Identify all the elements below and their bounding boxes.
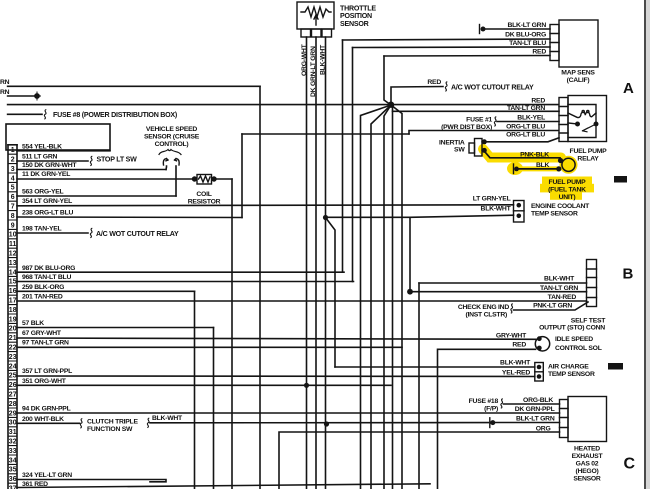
relay BLK-YEL stub to contact — [568, 123, 578, 124]
svg-text:5: 5 — [11, 185, 15, 192]
idle sol pin dot upper — [537, 336, 542, 341]
svg-text:6: 6 — [11, 194, 15, 201]
junction dot clutch BLK-WHT — [324, 421, 329, 426]
relay coil — [568, 112, 596, 117]
svg-text:25: 25 — [9, 373, 17, 380]
fuel pump relay box — [568, 96, 607, 142]
svg-text:TAN-LT GRN: TAN-LT GRN — [540, 285, 578, 292]
inertia top pin lead — [482, 141, 484, 143]
svg-text:OUTPUT (STO) CONN: OUTPUT (STO) CONN — [539, 325, 605, 332]
air charge pin dot lower — [537, 374, 542, 379]
BLK wire connector bar — [513, 164, 515, 174]
connector squiggle fuse 18 — [501, 399, 503, 409]
wire relay BLK-YEL from fuse 1 — [497, 121, 559, 123]
relay contact dot right — [594, 122, 599, 127]
svg-text:259 BLK-ORG: 259 BLK-ORG — [22, 284, 64, 291]
svg-text:RELAY: RELAY — [577, 155, 599, 162]
svg-text:10: 10 — [9, 232, 17, 239]
svg-text:ORG-LT BLU: ORG-LT BLU — [506, 124, 545, 131]
svg-text:(CALIF): (CALIF) — [567, 77, 590, 84]
relay contact dot left — [575, 122, 580, 127]
junction dot BLK-WHT ECT — [323, 215, 328, 220]
svg-text:31: 31 — [9, 429, 17, 436]
svg-text:ORG: ORG — [536, 426, 551, 433]
svg-text:17: 17 — [9, 298, 17, 305]
BLK-LT GRN inline connector bar — [489, 418, 491, 428]
svg-text:FUEL PUMP: FUEL PUMP — [570, 148, 608, 155]
svg-text:CHECK ENG IND: CHECK ENG IND — [458, 304, 509, 311]
wire FUSE #8 stub — [8, 113, 42, 115]
MAP sensor box — [559, 20, 598, 67]
svg-text:B: B — [623, 266, 634, 283]
wire 97 TAN-LT GRN — [17, 346, 402, 348]
TPS potentiometer zigzag — [301, 7, 331, 17]
svg-text:19: 19 — [9, 316, 17, 323]
wire node vertical straight down — [392, 105, 394, 489]
svg-text:CLUTCH TRIPLE: CLUTCH TRIPLE — [87, 419, 138, 426]
wire TAN-LT GRN B horizontal — [410, 291, 587, 293]
wire 198 TAN-YEL stub — [17, 232, 88, 234]
svg-text:563 ORG-YEL: 563 ORG-YEL — [22, 189, 64, 196]
svg-text:AIR CHARGE: AIR CHARGE — [548, 364, 589, 371]
BLK-LT GRN inline connector dot — [490, 420, 495, 425]
wire 238 ORG-LT BLU upper run — [242, 133, 409, 135]
HEGO pin column — [560, 400, 569, 438]
svg-text:150 DK GRN-WHT: 150 DK GRN-WHT — [22, 162, 77, 169]
wire MAP DK BLU-ORG vertical — [342, 40, 344, 272]
highlight BLK wire (yellow) — [515, 166, 558, 171]
junction dot 351 ORG-WHT — [304, 383, 309, 388]
wire diagonal from BLK-WHT junction to bus — [326, 218, 336, 368]
svg-text:28: 28 — [9, 401, 17, 408]
inertia switch body — [475, 139, 483, 157]
svg-text:A: A — [623, 80, 634, 97]
svg-text:BLK-YEL: BLK-YEL — [517, 115, 545, 122]
connector squiggle clutch right — [147, 418, 149, 428]
TPS pin box 1 — [301, 29, 311, 37]
svg-text:SELF TEST: SELF TEST — [571, 317, 606, 324]
marker bar B-section — [608, 363, 623, 370]
svg-text:C: C — [624, 456, 636, 473]
power distribution box outline — [6, 124, 110, 150]
svg-text:29: 29 — [9, 410, 17, 417]
svg-text:201 TAN-RED: 201 TAN-RED — [22, 294, 63, 301]
wire node ray to bus at 384 — [384, 105, 391, 489]
svg-text:32: 32 — [9, 439, 17, 446]
TPS pin box 3 — [322, 29, 332, 37]
ECT pin dot lower — [517, 214, 522, 219]
svg-text:DK BLU-ORG: DK BLU-ORG — [505, 31, 546, 38]
svg-text:TAN-LT GRN: TAN-LT GRN — [507, 105, 545, 112]
svg-text:RN: RN — [0, 79, 10, 86]
left connector strip right rail — [16, 145, 18, 489]
wire BLK-WHT B vertical drop — [418, 283, 420, 489]
wire 200 WHT-BLK stub — [17, 422, 80, 424]
vss coil symbol left — [163, 159, 168, 166]
svg-text:BLK-WHT: BLK-WHT — [544, 276, 575, 283]
svg-text:(INST CLSTR): (INST CLSTR) — [465, 312, 507, 319]
wire node ray to bus at 373.5 — [371, 105, 391, 489]
connector squiggle a/c wot top — [445, 82, 447, 92]
terminal dot GRN stub B — [34, 93, 40, 99]
svg-text:97 TAN-LT GRN: 97 TAN-LT GRN — [22, 340, 69, 347]
wire vss left pin drop — [165, 166, 168, 170]
svg-text:CONTROL): CONTROL) — [155, 141, 189, 148]
svg-text:ORG-LT BLU: ORG-LT BLU — [506, 132, 545, 139]
strip cell dividers — [8, 145, 17, 483]
wire MAP BLK-LT GRN stub — [484, 28, 550, 30]
highlight UNIT label line 3 — [550, 191, 582, 200]
svg-text:RN: RN — [0, 89, 10, 96]
relay coil loops — [582, 110, 584, 112]
coil resistor zigzag — [199, 176, 211, 182]
wire 94 DK GRN-PPL to HEGO — [17, 412, 560, 414]
wire 238 ORG-LT BLU lower run — [17, 216, 242, 219]
marker bar A-section — [614, 176, 627, 183]
svg-text:354 LT GRN-YEL: 354 LT GRN-YEL — [22, 198, 72, 205]
air charge temp sensor connector — [535, 363, 544, 382]
svg-text:57 BLK: 57 BLK — [22, 320, 44, 327]
svg-text:SENSOR: SENSOR — [573, 476, 601, 483]
svg-text:BLK-WHT: BLK-WHT — [481, 205, 512, 212]
connector squiggle check eng ind — [511, 304, 513, 314]
svg-text:198 TAN-YEL: 198 TAN-YEL — [22, 226, 62, 233]
svg-text:26: 26 — [9, 382, 17, 389]
B connector column — [587, 260, 597, 307]
svg-text:DK GRN-PPL: DK GRN-PPL — [515, 406, 555, 413]
svg-text:2: 2 — [11, 157, 15, 164]
inertia top pin dot — [482, 139, 487, 144]
svg-text:ORG-WHT: ORG-WHT — [301, 43, 308, 76]
svg-text:FUEL PUMP: FUEL PUMP — [549, 179, 587, 186]
wire 324 YEL-LT GRN with step — [17, 480, 166, 482]
svg-text:TEMP SENSOR: TEMP SENSOR — [531, 211, 578, 218]
svg-text:ENGINE COOLANT: ENGINE COOLANT — [531, 203, 590, 210]
wire MAP TAN-LT BLU vertical — [352, 48, 354, 282]
svg-text:16: 16 — [9, 288, 17, 295]
TPS pin box 2 — [312, 29, 322, 37]
svg-text:BLK-WHT: BLK-WHT — [320, 44, 327, 75]
svg-text:24: 24 — [9, 363, 17, 370]
svg-text:20: 20 — [9, 326, 17, 333]
svg-text:CONTROL SOL: CONTROL SOL — [555, 345, 602, 352]
wire BLK-LT GRN to HEGO — [494, 422, 560, 424]
connector squiggle fuse 1 — [494, 117, 496, 127]
wire GRN stub B with terminal — [8, 95, 37, 97]
fuel pump bottom pin dot — [556, 166, 561, 171]
svg-text:FUSE #1: FUSE #1 — [466, 116, 492, 123]
MAP BLK-LT GRN connector symbol — [479, 25, 481, 34]
svg-text:238 ORG-LT BLU: 238 ORG-LT BLU — [22, 210, 73, 217]
highlight BLK wire left connector blob (yellow) — [507, 162, 523, 175]
wire MAP RED horizontal — [384, 55, 550, 58]
wire MAP DK BLU-ORG horizontal — [343, 39, 551, 40]
svg-text:8: 8 — [11, 213, 15, 220]
svg-text:21: 21 — [9, 335, 17, 342]
wire node ray to bus at 402 down to 97 TAN-LT GRN junction and bottom — [391, 105, 402, 489]
svg-text:94 DK GRN-PPL: 94 DK GRN-PPL — [22, 406, 71, 413]
svg-text:357 LT GRN-PPL: 357 LT GRN-PPL — [22, 368, 72, 375]
svg-text:BLK-LT GRN: BLK-LT GRN — [507, 22, 546, 29]
vss brace — [159, 150, 181, 155]
wire 354 LT GRN-YEL to engine coolant temp sensor — [17, 205, 514, 206]
MAP pin dividers — [550, 34, 559, 52]
svg-text:A/C WOT CUTOUT RELAY: A/C WOT CUTOUT RELAY — [96, 230, 179, 238]
svg-text:4: 4 — [11, 175, 15, 182]
connector squiggle clutch left — [80, 419, 82, 429]
svg-text:361 RED: 361 RED — [22, 481, 48, 488]
wire MAP RED vertical joining node — [384, 56, 391, 105]
svg-text:BLK-WHT: BLK-WHT — [152, 415, 183, 422]
svg-text:COIL: COIL — [196, 191, 211, 198]
svg-text:200 WHT-BLK: 200 WHT-BLK — [22, 416, 64, 423]
svg-text:IDLE SPEED: IDLE SPEED — [555, 336, 593, 343]
svg-text:30: 30 — [9, 420, 17, 427]
wire RED main horizontal to fuel pump relay — [8, 104, 559, 106]
wire vertical from GRN A bend — [259, 86, 261, 489]
connector squiggle a/c wot cutout relay — [90, 228, 92, 238]
highlight PNK-BLK wire (yellow) — [483, 149, 561, 158]
MAP BLK-LT GRN connector dot — [481, 27, 486, 32]
wire ORG-LT BLU jog to relay — [409, 131, 559, 135]
svg-text:SW: SW — [454, 146, 465, 153]
svg-text:37: 37 — [9, 486, 17, 489]
wire TPS DK GRN-LT GRN vertical bus — [315, 37, 317, 489]
wire GRN stub A (top left) — [8, 85, 260, 87]
wire 511 LT GRN to stop lt sw — [17, 160, 88, 162]
svg-text:YEL-RED: YEL-RED — [502, 370, 530, 377]
svg-text:PNK-LT GRN: PNK-LT GRN — [533, 303, 572, 310]
engine coolant temp sensor connector — [514, 201, 525, 223]
idle sol pin dot lower — [537, 346, 542, 351]
relay pin column — [559, 98, 568, 142]
svg-text:INERTIA: INERTIA — [439, 139, 465, 146]
svg-text:36: 36 — [9, 476, 17, 483]
svg-text:TAN-LT BLU: TAN-LT BLU — [509, 40, 546, 47]
svg-text:(PWR DIST BOX): (PWR DIST BOX) — [441, 124, 492, 131]
wire vertical from 57 BLK bend — [213, 328, 215, 489]
svg-text:VEHICLE SPEED: VEHICLE SPEED — [146, 126, 197, 133]
highlight FUEL TANK label line 2 — [540, 184, 594, 193]
wire 259 BLK-ORG — [17, 290, 195, 292]
scan page right edge — [646, 0, 650, 489]
svg-text:PNK-BLK: PNK-BLK — [520, 151, 549, 158]
inertia bottom pin dot — [482, 148, 487, 153]
wire 987 DK BLU-ORG — [17, 271, 344, 273]
highlight fuel pump circle (yellow) — [560, 156, 578, 174]
svg-text:DK GRN-LT GRN: DK GRN-LT GRN — [310, 46, 317, 97]
left connector strip left rail — [7, 145, 9, 489]
svg-text:SENSOR: SENSOR — [340, 20, 369, 28]
coil resistor box — [197, 175, 212, 185]
ECT connector divider — [514, 210, 525, 212]
svg-text:23: 23 — [9, 354, 17, 361]
throttle position sensor box — [297, 2, 334, 29]
svg-text:LT GRN-YEL: LT GRN-YEL — [473, 196, 511, 203]
svg-text:987 DK BLU-ORG: 987 DK BLU-ORG — [22, 265, 75, 272]
wire idle speed RED with drop — [438, 349, 536, 489]
idle speed control sol circle — [535, 337, 549, 351]
wire vertical from coil resistor bend — [231, 179, 233, 489]
svg-text:GRY-WHT: GRY-WHT — [496, 332, 527, 339]
svg-text:18: 18 — [9, 307, 17, 314]
svg-text:BLK-WHT: BLK-WHT — [500, 360, 531, 367]
svg-text:(FUEL TANK: (FUEL TANK — [548, 186, 586, 193]
relay switch blade — [583, 124, 597, 132]
svg-text:UNIT): UNIT) — [559, 194, 576, 201]
svg-text:RED: RED — [532, 48, 546, 55]
wire 351 ORG-WHT — [17, 384, 391, 386]
svg-text:15: 15 — [9, 279, 17, 286]
wire vss right pin drop — [175, 166, 177, 196]
wire relay ORG-LT BLU 2 from inertia switch — [486, 138, 559, 142]
svg-text:35: 35 — [9, 467, 17, 474]
wire MAP TAN-LT BLU horizontal — [353, 46, 551, 49]
svg-text:511 LT GRN: 511 LT GRN — [22, 154, 57, 161]
wire PNK-BLK (on yellow) — [484, 151, 560, 158]
svg-text:RED: RED — [427, 79, 441, 86]
wire vertical from 259 bend — [194, 291, 196, 489]
relay pin dividers — [559, 107, 568, 134]
svg-text:3: 3 — [11, 166, 15, 173]
svg-text:BLK-LT GRN: BLK-LT GRN — [516, 416, 555, 423]
MAP pin column — [550, 25, 559, 61]
svg-text:67 GRY-WHT: 67 GRY-WHT — [22, 330, 62, 337]
svg-text:ORG-BLK: ORG-BLK — [523, 397, 553, 404]
svg-text:STOP LT SW: STOP LT SW — [97, 155, 138, 163]
svg-text:27: 27 — [9, 392, 17, 399]
svg-text:968 TAN-LT BLU: 968 TAN-LT BLU — [22, 274, 71, 281]
svg-text:MAP SENS: MAP SENS — [561, 70, 595, 77]
svg-text:EXHAUST: EXHAUST — [572, 453, 604, 460]
wire BLK-WHT B horizontal — [419, 282, 587, 284]
wire HEGO ORG-BLK from fuse 18 — [504, 403, 560, 405]
svg-text:RESISTOR: RESISTOR — [188, 198, 221, 205]
svg-text:A/C WOT CUTOUT RELAY: A/C WOT CUTOUT RELAY — [451, 84, 534, 92]
inertia switch tab — [469, 143, 475, 153]
svg-text:RED: RED — [512, 342, 526, 349]
wire 563 ORG-YEL to vss — [17, 195, 176, 197]
wire PNK-LT GRN with diagonal to pin — [514, 302, 589, 310]
air charge connector divider — [535, 371, 544, 373]
wire 968 TAN-LT BLU — [17, 281, 354, 283]
coil resistor left dot — [192, 176, 197, 181]
svg-text:33: 33 — [9, 448, 17, 455]
B connector dividers — [587, 269, 597, 298]
svg-text:GAS 02: GAS 02 — [576, 461, 599, 468]
svg-text:554 YEL-BLK: 554 YEL-BLK — [22, 143, 62, 150]
wire 201 TAN-RED to B connector — [17, 300, 587, 302]
svg-text:TEMP SENSOR: TEMP SENSOR — [548, 371, 595, 378]
ECT pin dot upper — [517, 203, 522, 208]
connector squiggle stop lt sw — [90, 156, 92, 166]
fuel pump top pin dot — [558, 158, 563, 163]
svg-text:(HEGO): (HEGO) — [575, 468, 598, 475]
fuel pump circle — [562, 158, 575, 171]
svg-text:RED: RED — [531, 97, 545, 104]
svg-text:13: 13 — [9, 260, 17, 267]
coil resistor right dot — [211, 176, 216, 181]
BLK wire connector dot — [514, 167, 519, 172]
svg-text:HEATED: HEATED — [574, 446, 600, 453]
svg-text:351 ORG-WHT: 351 ORG-WHT — [22, 378, 67, 385]
wire TPS ORG-WHT vertical bus — [306, 37, 308, 489]
wire node ray to bus at 363 — [361, 105, 392, 489]
svg-text:34: 34 — [9, 457, 17, 464]
wire clutch BLK-WHT run — [150, 422, 489, 424]
TPS wiper arrow — [314, 15, 318, 25]
wire 238 ORG-LT BLU riser — [241, 134, 243, 218]
HEGO pin dividers — [560, 409, 569, 428]
wire TPS BLK-WHT vertical bus — [325, 37, 327, 489]
svg-text:BLK: BLK — [536, 162, 550, 169]
HEGO sensor box — [568, 397, 607, 442]
wire air charge BLK-WHT — [335, 366, 535, 368]
wire 11 DK GRN-YEL to coil resistor — [17, 178, 195, 180]
wire 357 LT GRN-PPL / YEL-RED to air charge temp sensor — [17, 375, 535, 378]
wire ECT BLK-WHT drop to TAN-LT GRN junction — [409, 217, 411, 291]
terminal cross GRN stub B — [33, 92, 41, 101]
svg-text:11 DK GRN-YEL: 11 DK GRN-YEL — [22, 171, 70, 178]
svg-text:22: 22 — [9, 345, 17, 352]
svg-text:SENSOR (CRUISE: SENSOR (CRUISE — [144, 133, 200, 140]
svg-text:(F/P): (F/P) — [484, 406, 498, 413]
strip numbers 1-37 — [9, 147, 17, 489]
svg-text:9: 9 — [11, 222, 15, 229]
strip top edge — [8, 144, 17, 146]
svg-text:FUSE #8 (POWER DISTRIBUTION BO: FUSE #8 (POWER DISTRIBUTION BOX) — [53, 111, 178, 119]
wire 554 YEL-BLK — [17, 150, 110, 152]
wire relay TAN-LT GRN — [393, 110, 560, 112]
inertia bottom pin lead — [482, 149, 484, 151]
wire 361 RED long run — [17, 484, 430, 488]
node junction — [388, 102, 394, 108]
wire BLK (on yellow) — [516, 168, 559, 170]
svg-text:7: 7 — [11, 204, 15, 211]
svg-text:14: 14 — [9, 269, 17, 276]
relay internal RED feed to contact — [568, 105, 596, 122]
junction dot TAN-LT GRN B — [407, 289, 413, 295]
svg-text:FUSE #18: FUSE #18 — [469, 398, 499, 405]
vss coil symbol right — [175, 159, 180, 166]
connector squiggle fuse 8 — [44, 110, 46, 120]
highlight FUEL PUMP label line 1 — [542, 177, 592, 186]
wire node riser to A/C WOT cutout relay — [391, 87, 443, 106]
svg-text:11: 11 — [9, 241, 17, 248]
wire 150 DK GRN-WHT to vss — [17, 169, 166, 171]
svg-text:FUNCTION SW: FUNCTION SW — [87, 426, 133, 433]
wire 57 BLK — [17, 327, 214, 329]
relay pin5 internal riser — [568, 127, 596, 138]
svg-text:324 YEL-LT GRN: 324 YEL-LT GRN — [22, 472, 72, 479]
svg-text:12: 12 — [9, 251, 17, 258]
svg-text:TAN-RED: TAN-RED — [548, 294, 577, 301]
air charge pin dot upper — [537, 365, 542, 370]
wire HEGO ORG with drop — [279, 432, 560, 489]
wire ECT BLK-WHT horizontal — [326, 215, 514, 217]
wire 67 GRY-WHT to idle speed control sol — [17, 338, 536, 339]
wire coil resistor to bend — [214, 178, 232, 180]
